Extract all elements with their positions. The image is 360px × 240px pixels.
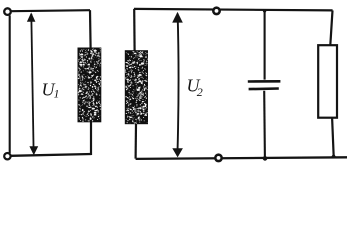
label U1 [42, 80, 60, 101]
svg-text:1: 1 [54, 86, 60, 100]
capacitor C bottom plate [249, 87, 279, 90]
voltage arrow U1 [27, 12, 38, 155]
wire bottom of secondary circuit [136, 157, 347, 159]
wire bottom of primary loop [11, 154, 92, 156]
wire top of primary loop [11, 10, 90, 11]
load resistor R (outline box) [318, 45, 337, 118]
transformer secondary winding L2 (hatched block) [125, 50, 148, 124]
terminal circle top of output [213, 8, 219, 14]
wire from top into secondary winding [133, 9, 136, 51]
junction dot capacitor-top [263, 9, 266, 12]
wire from capacitor to bottom [263, 91, 266, 158]
label U2 [187, 76, 203, 100]
wire top of secondary circuit [134, 9, 333, 11]
capacitor C top plate [248, 80, 281, 83]
wire from top to capacitor [264, 11, 266, 80]
wire left side of primary loop [9, 15, 11, 153]
wire from top-right corner down to load [330, 10, 332, 45]
terminal circle bottom of output [215, 155, 221, 161]
junction dot capacitor-bottom [263, 156, 268, 161]
svg-text:2: 2 [197, 85, 203, 99]
terminal circle bottom-left [4, 153, 10, 159]
wire from primary winding to bottom [90, 122, 92, 156]
voltage arrow U2 [172, 12, 183, 158]
wire from load to bottom [332, 118, 334, 157]
wire from top into primary winding [89, 10, 92, 48]
junction blob bottom-right [331, 153, 337, 157]
wire from secondary winding to bottom [135, 124, 138, 159]
terminal circle top-left [4, 8, 11, 15]
transformer primary winding L1 (hatched block) [78, 48, 102, 123]
